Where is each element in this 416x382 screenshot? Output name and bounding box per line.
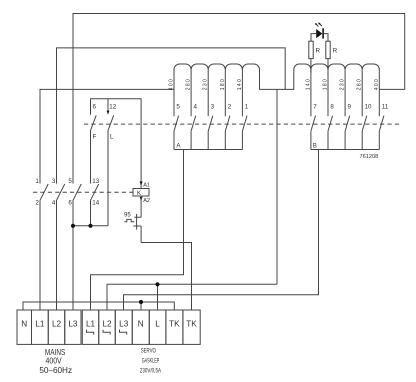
svg-text:F: F [93, 134, 97, 141]
svg-text:R: R [316, 48, 321, 55]
svg-text:280: 280 [186, 79, 192, 90]
svg-text:1: 1 [35, 178, 39, 185]
svg-text:L: L [110, 134, 114, 141]
svg-text:7: 7 [313, 104, 317, 111]
svg-text:400: 400 [374, 79, 380, 90]
svg-text:3: 3 [52, 178, 56, 185]
svg-text:N: N [138, 320, 144, 329]
svg-text:230V/0,5A: 230V/0,5A [140, 368, 161, 374]
svg-text:140: 140 [237, 79, 243, 90]
svg-text:A2: A2 [143, 198, 150, 204]
svg-text:L1: L1 [35, 320, 45, 329]
svg-text:L: L [155, 320, 160, 329]
svg-text:50–60Hz: 50–60Hz [39, 365, 72, 375]
svg-text:A1: A1 [143, 182, 150, 188]
svg-text:12: 12 [109, 104, 116, 111]
svg-text:280: 280 [357, 79, 363, 90]
svg-text:L2: L2 [52, 320, 62, 329]
svg-text:230: 230 [203, 79, 209, 90]
svg-text:230: 230 [340, 79, 346, 90]
svg-text:5: 5 [68, 178, 72, 185]
svg-text:8: 8 [330, 104, 334, 111]
svg-text:SERVO: SERVO [141, 348, 156, 354]
svg-text:4: 4 [52, 200, 56, 207]
svg-text:TK: TK [169, 320, 180, 329]
svg-text:140: 140 [305, 79, 311, 90]
svg-text:2: 2 [35, 200, 39, 207]
svg-text:N: N [21, 320, 27, 329]
svg-text:5: 5 [176, 104, 180, 111]
svg-text:6: 6 [93, 104, 97, 111]
svg-text:2: 2 [228, 104, 232, 111]
svg-text:L3: L3 [68, 320, 78, 329]
svg-text:11: 11 [382, 104, 389, 111]
svg-text:6: 6 [68, 200, 72, 207]
svg-text:TK: TK [186, 320, 197, 329]
svg-text:GASKLEP: GASKLEP [142, 358, 160, 364]
svg-text:9: 9 [348, 104, 352, 111]
svg-text:4: 4 [194, 104, 198, 111]
svg-text:B: B [313, 142, 317, 149]
svg-text:1: 1 [245, 104, 249, 111]
svg-text:13: 13 [92, 178, 99, 185]
svg-text:10: 10 [365, 104, 372, 111]
svg-text:95: 95 [124, 212, 131, 218]
svg-text:761208: 761208 [360, 154, 379, 160]
svg-text:K: K [137, 191, 141, 197]
svg-text:180: 180 [220, 79, 226, 90]
svg-text:L2: L2 [102, 320, 112, 329]
svg-text:R: R [333, 48, 338, 55]
svg-text:180: 180 [323, 79, 329, 90]
svg-text:14: 14 [92, 200, 99, 207]
svg-text:L1: L1 [86, 320, 96, 329]
svg-text:400: 400 [169, 79, 175, 90]
svg-text:L3: L3 [119, 320, 129, 329]
svg-text:3: 3 [211, 104, 215, 111]
